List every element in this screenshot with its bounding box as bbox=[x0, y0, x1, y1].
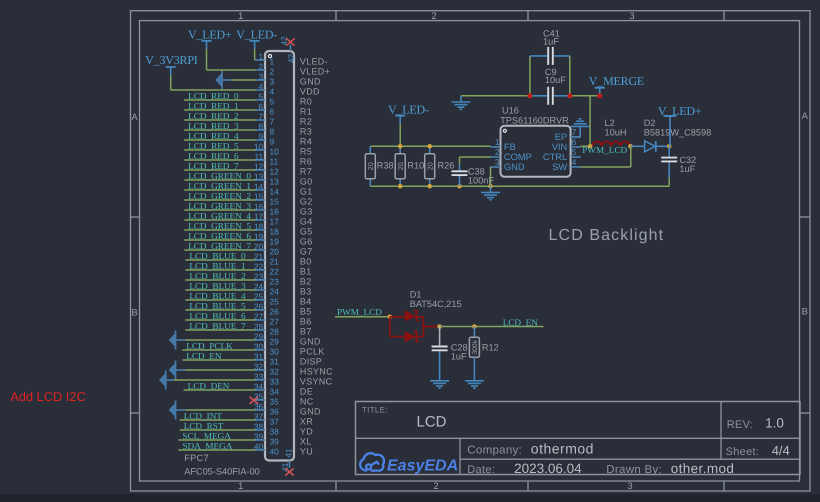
svg-text:G7: G7 bbox=[300, 246, 313, 256]
svg-text:EP: EP bbox=[555, 132, 567, 142]
svg-text:1: 1 bbox=[238, 481, 243, 492]
svg-text:GND: GND bbox=[300, 76, 321, 86]
svg-text:LCD_GREEN_1: LCD_GREEN_1 bbox=[188, 181, 251, 191]
svg-text:29: 29 bbox=[270, 336, 280, 346]
svg-text:AFC05-S40FIA-00: AFC05-S40FIA-00 bbox=[184, 466, 260, 476]
svg-text:7: 7 bbox=[270, 116, 275, 126]
svg-text:R0: R0 bbox=[300, 96, 312, 106]
svg-text:LCD_BLUE_2: LCD_BLUE_2 bbox=[189, 271, 246, 281]
svg-text:LCD_RED_6: LCD_RED_6 bbox=[188, 151, 239, 161]
svg-text:LCD_EN: LCD_EN bbox=[503, 317, 539, 327]
svg-text:1: 1 bbox=[259, 51, 264, 61]
svg-text:V_LED+: V_LED+ bbox=[188, 27, 232, 41]
svg-text:20: 20 bbox=[366, 162, 375, 170]
svg-text:B7: B7 bbox=[300, 326, 312, 336]
svg-text:Date:: Date: bbox=[467, 464, 495, 476]
svg-text:LCD_BLUE_0: LCD_BLUE_0 bbox=[189, 251, 246, 261]
svg-text:24: 24 bbox=[270, 286, 280, 296]
svg-text:35: 35 bbox=[270, 396, 280, 406]
svg-text:GND: GND bbox=[504, 162, 525, 172]
svg-text:U16: U16 bbox=[502, 106, 519, 116]
svg-text:7: 7 bbox=[572, 127, 577, 137]
svg-text:1uF: 1uF bbox=[543, 37, 559, 47]
svg-text:2: 2 bbox=[431, 11, 436, 22]
svg-text:B5819W_C8598: B5819W_C8598 bbox=[644, 127, 711, 137]
svg-text:19: 19 bbox=[270, 236, 280, 246]
svg-text:LCD_BLUE_4: LCD_BLUE_4 bbox=[189, 291, 246, 301]
svg-text:VLED+: VLED+ bbox=[300, 66, 330, 76]
svg-text:G2: G2 bbox=[300, 196, 313, 206]
svg-text:LCD_GREEN_4: LCD_GREEN_4 bbox=[188, 211, 251, 221]
svg-text:26: 26 bbox=[270, 306, 280, 316]
svg-text:LCD_RED_2: LCD_RED_2 bbox=[188, 111, 239, 121]
svg-text:12: 12 bbox=[270, 166, 280, 176]
svg-text:DISP: DISP bbox=[300, 356, 322, 366]
svg-text:GND: GND bbox=[300, 336, 321, 346]
svg-text:28: 28 bbox=[270, 326, 280, 336]
svg-text:21: 21 bbox=[270, 256, 280, 266]
svg-text:LCD_BLUE_5: LCD_BLUE_5 bbox=[189, 301, 246, 311]
svg-text:6: 6 bbox=[572, 137, 577, 147]
svg-text:B: B bbox=[131, 308, 137, 319]
svg-text:LCD_RED_1: LCD_RED_1 bbox=[188, 101, 239, 111]
svg-text:VDD: VDD bbox=[300, 86, 320, 96]
svg-text:FPC7: FPC7 bbox=[184, 453, 209, 463]
svg-text:R3: R3 bbox=[300, 126, 312, 136]
svg-text:NC: NC bbox=[300, 396, 314, 406]
svg-text:GND: GND bbox=[300, 406, 321, 416]
svg-text:LCD_BLUE_6: LCD_BLUE_6 bbox=[189, 311, 246, 321]
svg-text:6: 6 bbox=[270, 106, 275, 116]
svg-text:R2: R2 bbox=[300, 116, 312, 126]
svg-text:5: 5 bbox=[259, 91, 264, 101]
svg-text:LCD_INT: LCD_INT bbox=[184, 411, 223, 421]
svg-text:Drawn By:: Drawn By: bbox=[606, 464, 662, 476]
svg-text:othermod: othermod bbox=[531, 441, 594, 457]
svg-text:Add LCD I2C: Add LCD I2C bbox=[10, 389, 85, 404]
svg-text:7: 7 bbox=[259, 111, 264, 121]
svg-text:R38: R38 bbox=[377, 161, 394, 171]
svg-text:SCL_MEGA: SCL_MEGA bbox=[182, 431, 231, 441]
svg-text:300k: 300k bbox=[472, 339, 479, 354]
svg-text:32: 32 bbox=[270, 366, 280, 376]
svg-text:34: 34 bbox=[270, 386, 280, 396]
svg-text:11: 11 bbox=[254, 151, 263, 161]
svg-text:G0: G0 bbox=[300, 176, 313, 186]
svg-text:8: 8 bbox=[259, 121, 264, 131]
svg-text:13: 13 bbox=[270, 176, 280, 186]
svg-text:LCD_RED_0: LCD_RED_0 bbox=[188, 91, 239, 101]
svg-text:LCD_RED_3: LCD_RED_3 bbox=[188, 121, 239, 131]
svg-text:LCD_GREEN_7: LCD_GREEN_7 bbox=[188, 241, 251, 251]
svg-text:PWM_LCD: PWM_LCD bbox=[337, 307, 382, 317]
svg-text:V_LED-: V_LED- bbox=[236, 27, 277, 41]
svg-text:8: 8 bbox=[270, 126, 275, 136]
svg-text:10uF: 10uF bbox=[545, 75, 566, 85]
svg-text:R7: R7 bbox=[300, 166, 312, 176]
svg-text:LCD_GREEN_2: LCD_GREEN_2 bbox=[188, 191, 251, 201]
svg-text:40: 40 bbox=[270, 446, 280, 456]
svg-text:COMP: COMP bbox=[504, 152, 532, 162]
svg-text:R5: R5 bbox=[300, 146, 312, 156]
svg-text:30: 30 bbox=[270, 346, 280, 356]
svg-text:TITLE:: TITLE: bbox=[362, 406, 388, 415]
svg-text:1uF: 1uF bbox=[679, 164, 695, 174]
svg-text:20: 20 bbox=[425, 162, 434, 170]
svg-text:V_LED-: V_LED- bbox=[388, 103, 429, 117]
svg-text:39: 39 bbox=[270, 436, 280, 446]
svg-text:other.mod: other.mod bbox=[671, 461, 735, 476]
svg-text:B2: B2 bbox=[300, 276, 312, 286]
svg-text:LCD_RST: LCD_RST bbox=[184, 421, 224, 431]
svg-text:33: 33 bbox=[270, 376, 280, 386]
svg-text:4: 4 bbox=[259, 81, 264, 91]
svg-text:Sheet:: Sheet: bbox=[726, 446, 760, 458]
svg-text:23: 23 bbox=[270, 276, 280, 286]
svg-text:V_MERGE: V_MERGE bbox=[589, 74, 644, 88]
svg-text:4/4: 4/4 bbox=[772, 443, 790, 458]
svg-text:LCD_RED_4: LCD_RED_4 bbox=[188, 131, 239, 141]
svg-text:LCD_EN: LCD_EN bbox=[186, 351, 222, 361]
svg-text:15: 15 bbox=[270, 196, 280, 206]
svg-text:B1: B1 bbox=[300, 266, 312, 276]
svg-text:SW: SW bbox=[552, 162, 567, 172]
svg-text:27: 27 bbox=[270, 316, 280, 326]
svg-text:G5: G5 bbox=[300, 226, 313, 236]
svg-text:XL: XL bbox=[300, 436, 312, 446]
svg-text:5: 5 bbox=[270, 96, 275, 106]
svg-text:BAT54C,215: BAT54C,215 bbox=[410, 299, 462, 309]
svg-text:LCD_BLUE_1: LCD_BLUE_1 bbox=[189, 261, 246, 271]
svg-text:SDA_MEGA: SDA_MEGA bbox=[182, 441, 232, 451]
svg-text:DE: DE bbox=[300, 386, 313, 396]
svg-text:9: 9 bbox=[259, 131, 264, 141]
svg-text:3: 3 bbox=[627, 481, 632, 492]
svg-text:37: 37 bbox=[270, 416, 280, 426]
svg-text:2: 2 bbox=[270, 66, 275, 76]
svg-text:6: 6 bbox=[259, 101, 264, 111]
svg-text:YD: YD bbox=[300, 426, 313, 436]
svg-text:A: A bbox=[802, 111, 809, 122]
svg-text:VLED-: VLED- bbox=[300, 56, 328, 66]
svg-text:3: 3 bbox=[259, 71, 264, 81]
svg-text:4: 4 bbox=[572, 157, 577, 167]
svg-text:R10: R10 bbox=[407, 161, 424, 171]
svg-text:LCD_PCLK: LCD_PCLK bbox=[186, 341, 233, 351]
svg-text:LCD Backlight: LCD Backlight bbox=[549, 227, 665, 244]
svg-text:42: 42 bbox=[286, 54, 296, 64]
svg-text:R6: R6 bbox=[300, 156, 312, 166]
svg-text:31: 31 bbox=[270, 356, 280, 366]
svg-text:10uH: 10uH bbox=[605, 127, 627, 137]
svg-text:G3: G3 bbox=[300, 206, 313, 216]
svg-text:LCD: LCD bbox=[417, 414, 447, 431]
svg-text:2023.06.04: 2023.06.04 bbox=[514, 461, 582, 476]
svg-text:VIN: VIN bbox=[552, 142, 568, 152]
svg-text:PWM_LCD: PWM_LCD bbox=[582, 145, 627, 155]
svg-text:1: 1 bbox=[238, 11, 243, 22]
svg-text:EasyEDA: EasyEDA bbox=[387, 458, 458, 475]
svg-text:17: 17 bbox=[270, 216, 280, 226]
svg-text:B5: B5 bbox=[300, 306, 312, 316]
svg-text:LCD_GREEN_5: LCD_GREEN_5 bbox=[188, 221, 251, 231]
svg-text:2: 2 bbox=[495, 147, 500, 157]
svg-text:R12: R12 bbox=[482, 343, 499, 353]
svg-text:R1: R1 bbox=[300, 106, 312, 116]
svg-text:LCD_RED_5: LCD_RED_5 bbox=[188, 141, 239, 151]
svg-text:G6: G6 bbox=[300, 236, 313, 246]
svg-text:41: 41 bbox=[283, 448, 293, 458]
svg-text:3: 3 bbox=[270, 76, 275, 86]
svg-text:3: 3 bbox=[495, 157, 500, 167]
svg-text:5: 5 bbox=[572, 147, 577, 157]
svg-text:R26: R26 bbox=[438, 161, 455, 171]
svg-text:LCD_BLUE_3: LCD_BLUE_3 bbox=[189, 281, 246, 291]
svg-text:CTRL: CTRL bbox=[543, 152, 567, 162]
svg-text:1: 1 bbox=[495, 137, 500, 147]
svg-text:LCD_RED_7: LCD_RED_7 bbox=[188, 161, 239, 171]
svg-text:3: 3 bbox=[629, 11, 634, 22]
svg-text:A: A bbox=[131, 112, 138, 123]
svg-text:4: 4 bbox=[270, 86, 275, 96]
svg-text:PCLK: PCLK bbox=[300, 346, 325, 356]
svg-text:1: 1 bbox=[270, 56, 275, 66]
svg-text:36: 36 bbox=[270, 406, 280, 416]
svg-text:XR: XR bbox=[300, 416, 313, 426]
svg-text:9: 9 bbox=[270, 136, 275, 146]
svg-text:LCD_BLUE_7: LCD_BLUE_7 bbox=[189, 321, 246, 331]
svg-text:REV:: REV: bbox=[727, 419, 753, 431]
svg-text:1.0: 1.0 bbox=[765, 416, 784, 431]
svg-text:18: 18 bbox=[270, 226, 280, 236]
svg-text:16: 16 bbox=[270, 206, 280, 216]
svg-text:V_LED+: V_LED+ bbox=[658, 104, 702, 118]
svg-text:R4: R4 bbox=[300, 136, 312, 146]
svg-text:2: 2 bbox=[259, 61, 264, 71]
svg-text:25: 25 bbox=[270, 296, 280, 306]
svg-text:B3: B3 bbox=[300, 286, 312, 296]
svg-text:22: 22 bbox=[270, 266, 280, 276]
svg-text:LCD_GREEN_6: LCD_GREEN_6 bbox=[188, 231, 251, 241]
svg-text:11: 11 bbox=[270, 156, 279, 166]
svg-text:G1: G1 bbox=[300, 186, 313, 196]
svg-text:LCD_GREEN_3: LCD_GREEN_3 bbox=[188, 201, 251, 211]
svg-text:G4: G4 bbox=[300, 216, 313, 226]
svg-text:14: 14 bbox=[270, 186, 280, 196]
svg-text:B0: B0 bbox=[300, 256, 312, 266]
svg-text:TPS61160DRVR: TPS61160DRVR bbox=[500, 116, 569, 126]
svg-text:10: 10 bbox=[270, 146, 280, 156]
svg-text:LCD_GREEN_0: LCD_GREEN_0 bbox=[188, 171, 251, 181]
svg-text:B: B bbox=[802, 306, 808, 317]
svg-text:B6: B6 bbox=[300, 316, 312, 326]
svg-text:HSYNC: HSYNC bbox=[300, 366, 333, 376]
svg-text:20: 20 bbox=[396, 162, 405, 170]
svg-text:2: 2 bbox=[433, 481, 438, 492]
svg-text:Company:: Company: bbox=[467, 444, 522, 456]
svg-text:YU: YU bbox=[300, 446, 313, 456]
svg-text:B4: B4 bbox=[300, 296, 312, 306]
svg-text:V_3V3RPI: V_3V3RPI bbox=[145, 53, 198, 67]
svg-text:LCD_DEN: LCD_DEN bbox=[188, 381, 230, 391]
svg-text:38: 38 bbox=[270, 426, 280, 436]
svg-text:1uF: 1uF bbox=[451, 352, 467, 362]
svg-text:FB: FB bbox=[504, 142, 516, 152]
svg-text:VSYNC: VSYNC bbox=[300, 376, 333, 386]
svg-text:20: 20 bbox=[270, 246, 280, 256]
